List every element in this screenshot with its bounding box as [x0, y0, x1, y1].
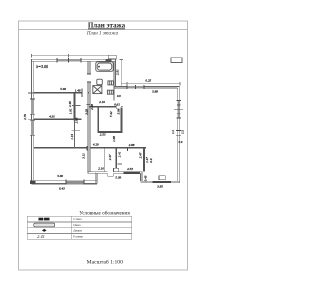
svg-text:0.9: 0.9 [179, 140, 183, 144]
entrance threshold notch [107, 173, 109, 176]
porch bottom wall y172.5 [113, 171, 142, 173]
svg-text:0.61: 0.61 [114, 102, 120, 106]
svg-text:Условные обозначения: Условные обозначения [79, 210, 130, 217]
porch door leaf rect [113, 168, 118, 172]
svg-text:0.9: 0.9 [149, 158, 153, 162]
radiator 1 [108, 81, 114, 85]
legend door symbol [42, 229, 47, 232]
radiator 2 [107, 90, 113, 94]
south wall right block y182 [141, 180, 180, 182]
wall A horizontal y92.5 [28, 92, 34, 94]
east wall window2 ticks [176, 129, 181, 131]
svg-text:2.41: 2.41 [118, 151, 122, 157]
svg-text:2.53: 2.53 [127, 167, 133, 171]
interior wall x113 below C [115, 149, 117, 169]
west wall double line [31, 59, 33, 182]
step wall x141 [140, 173, 142, 181]
door ticks wall A [81, 89, 83, 98]
dimension texts [23, 64, 184, 191]
south wall left block y181.7 [32, 180, 97, 182]
svg-text:1.91: 1.91 [68, 108, 72, 114]
wall C horizontal y148 [34, 147, 87, 149]
vent rect on north wall [108, 55, 116, 59]
svg-text:5.60: 5.60 [57, 174, 63, 178]
svg-text:4.29: 4.29 [93, 142, 99, 146]
window W4 in south wall [66, 181, 84, 185]
dimension line 2.51 vertical [120, 60, 122, 87]
svg-text:6.43: 6.43 [59, 187, 65, 191]
svg-text:2.41: 2.41 [37, 234, 45, 239]
washing machine with X [93, 86, 102, 94]
dark window/door segment right south wall [152, 181, 171, 183]
wall B horizontal y119 [28, 118, 34, 120]
svg-text:2.48: 2.48 [68, 101, 72, 107]
svg-text:3.03: 3.03 [85, 109, 89, 115]
window W6 in right north wall [127, 86, 144, 88]
svg-text:План 1 этажа: План 1 этажа [86, 32, 119, 37]
svg-text:2.79: 2.79 [23, 114, 27, 120]
legend labels [73, 217, 83, 238]
north wall right block y87.2 [114, 86, 180, 88]
svg-text:2.88: 2.88 [129, 143, 135, 147]
svg-text:Масштаб 1:100: Масштаб 1:100 [87, 258, 123, 265]
svg-text:0.45: 0.45 [144, 175, 148, 181]
bathroom right wall x114.7 [113, 61, 115, 100]
svg-text:h=3.00: h=3.00 [36, 64, 48, 69]
window W1 in north wall [57, 59, 81, 62]
svg-text:Окна: Окна [73, 223, 81, 227]
step wall x96 [94, 172, 96, 183]
svg-text:Размер: Размер [73, 235, 83, 239]
toilet [97, 79, 103, 85]
interior wall x74 [74, 94, 76, 121]
chimney rect top right [171, 58, 182, 63]
svg-text:5.98: 5.98 [117, 108, 121, 114]
svg-text:3.85: 3.85 [157, 185, 163, 189]
svg-text:Стена: Стена [73, 217, 82, 221]
window W2 west wall upper [31, 99, 34, 114]
svg-text:2.51: 2.51 [116, 69, 120, 75]
window W5 east wall [177, 100, 180, 118]
svg-text:5.66: 5.66 [60, 87, 66, 91]
dark SW corner segment [30, 180, 36, 184]
long interior wall x89 [87, 61, 89, 74]
svg-text:Двери: Двери [73, 229, 82, 233]
bathtub [96, 62, 113, 72]
svg-text:2.47: 2.47 [108, 154, 112, 160]
small room right wall x121.5 [121, 108, 123, 133]
window W3 west wall lower [31, 120, 34, 135]
svg-text:2.16: 2.16 [99, 100, 105, 104]
svg-text:6.25: 6.25 [145, 78, 151, 82]
legend window symbol [34, 223, 55, 227]
middle south wall y172.5 [88, 171, 108, 173]
dark wall segment (bathroom high window) [106, 59, 112, 62]
svg-text:5.88: 5.88 [152, 90, 158, 94]
svg-text:2.10: 2.10 [98, 167, 104, 171]
interior wall x144 below C [143, 149, 145, 172]
svg-text:1.68: 1.68 [112, 136, 116, 142]
svg-text:4.91: 4.91 [49, 115, 55, 119]
dimension line 6.25 above right block [121, 83, 180, 85]
svg-text:2.05: 2.05 [74, 117, 78, 123]
small room bottom wall y132 [98, 131, 123, 133]
door leaf rect right block [159, 176, 165, 180]
svg-text:2.98: 2.98 [90, 104, 94, 110]
svg-text:План этажа: План этажа [88, 21, 126, 29]
svg-text:0.9: 0.9 [117, 94, 121, 98]
north wall (left block) double line [32, 58, 116, 60]
legend wall symbol [39, 218, 50, 221]
title "План этажа" [88, 21, 126, 29]
svg-text:2.47: 2.47 [138, 152, 142, 158]
dimension line above north wall [32, 55, 109, 57]
svg-text:1.15: 1.15 [70, 134, 74, 140]
porch dark door segment [124, 171, 141, 174]
legend table [27, 216, 132, 239]
wall y106.5 horizontal [89, 106, 116, 108]
svg-text:1.48: 1.48 [75, 88, 81, 92]
east wall x178.7 [177, 88, 179, 181]
svg-text:1.5: 1.5 [180, 130, 184, 134]
svg-text:7.42: 7.42 [109, 111, 113, 117]
svg-text:2.53: 2.53 [100, 132, 106, 136]
page frame [19, 21, 188, 270]
svg-text:1.2: 1.2 [171, 130, 175, 134]
svg-text:3.11: 3.11 [82, 153, 86, 159]
svg-text:5.09: 5.09 [115, 176, 121, 180]
small room left wall x98.4 [97, 108, 99, 133]
